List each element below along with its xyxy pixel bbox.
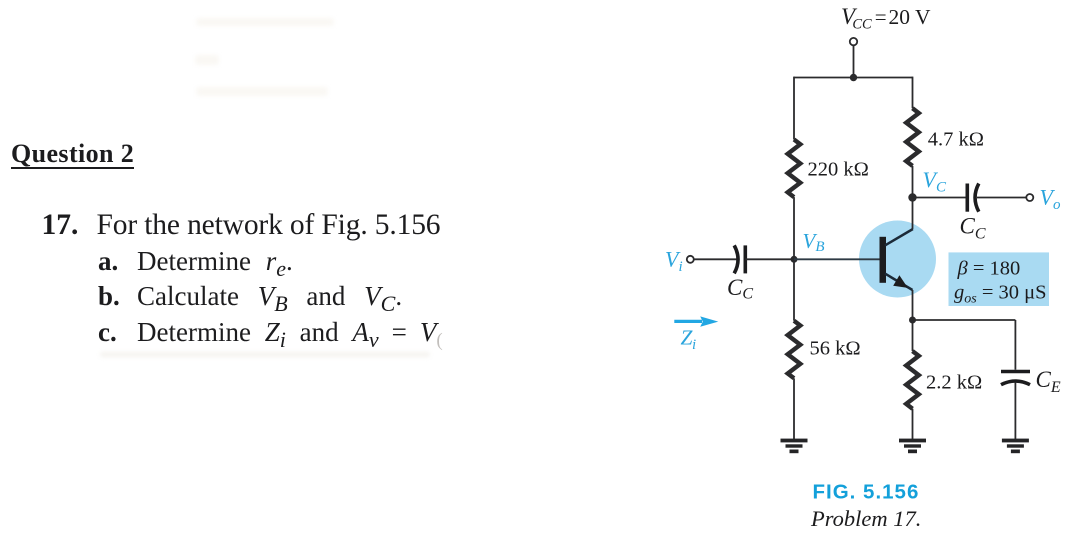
wire CE branch down to CE cap bbox=[1014, 320, 1016, 370]
wire left rail upper bbox=[793, 77, 795, 140]
svg-text:2.2 kΩ: 2.2 kΩ bbox=[926, 372, 982, 394]
label CC output bbox=[960, 214, 986, 243]
node VB junction dot bbox=[791, 256, 798, 263]
figure caption Problem 17. bbox=[810, 506, 921, 531]
wire CE cap to ground bbox=[1014, 383, 1016, 440]
ground symbol under R2 bbox=[781, 439, 808, 454]
wire R1 to base node bbox=[793, 197, 795, 259]
arrow Zi input impedance bbox=[674, 316, 718, 326]
svg-text:VB: VB bbox=[803, 229, 825, 255]
node Vo terminal bbox=[1026, 194, 1033, 201]
wire emitter node down to RE bbox=[912, 320, 914, 351]
wire base node down to R2 bbox=[793, 259, 795, 320]
value label 220 kOhm bbox=[808, 158, 869, 180]
label VC bbox=[923, 167, 947, 196]
resistor R1 220 kOhm bbox=[788, 140, 801, 198]
wire VC to output capacitor bbox=[913, 197, 966, 199]
label CC input bbox=[727, 275, 753, 303]
label VB bbox=[803, 229, 825, 255]
svg-text:220 kΩ: 220 kΩ bbox=[808, 158, 869, 180]
svg-text:Zi: Zi bbox=[681, 325, 697, 353]
svg-text:CE: CE bbox=[1036, 367, 1061, 396]
capacitor C3 emitter bypass CE bbox=[1001, 372, 1030, 385]
resistor R2 56 kOhm bbox=[788, 321, 801, 379]
wire top rail horizontal bbox=[794, 77, 913, 79]
svg-text:56 kΩ: 56 kΩ bbox=[810, 338, 861, 360]
wire R2 to ground bbox=[793, 378, 795, 439]
wire right rail upper bbox=[912, 77, 914, 109]
wire Vi to input capacitor bbox=[694, 258, 737, 260]
ground symbol under R4 bbox=[899, 439, 926, 454]
value label 4.7 kOhm bbox=[928, 129, 984, 151]
capacitor C1 input coupling CC bbox=[734, 245, 745, 273]
svg-text:FIG. 5.156: FIG. 5.156 bbox=[813, 481, 920, 504]
label Vo bbox=[1040, 185, 1061, 214]
label Zi bbox=[681, 325, 697, 353]
wire capacitor to base node bbox=[745, 258, 794, 260]
svg-text:CC: CC bbox=[960, 214, 986, 243]
transistor Q1 base bar bbox=[880, 237, 887, 283]
label Vi bbox=[665, 247, 683, 276]
svg-text:VCC=20 V: VCC=20 V bbox=[841, 4, 931, 33]
parameter box beta and gos bbox=[949, 252, 1050, 306]
wire emitter node to CE branch bbox=[913, 319, 1016, 321]
node Vi terminal bbox=[687, 256, 694, 263]
wire capacitor to Vo terminal bbox=[977, 197, 1026, 199]
svg-text:β = 180: β = 180 bbox=[957, 258, 1021, 280]
transistor Q1 body circle bbox=[859, 221, 936, 298]
resistor R3 4.7 kOhm bbox=[906, 108, 919, 166]
svg-text:Problem 17.: Problem 17. bbox=[810, 506, 921, 531]
label CE bbox=[1036, 367, 1061, 396]
transistor Q1 emitter lead with arrow bbox=[885, 274, 913, 290]
wire R4 to ground bbox=[912, 409, 914, 440]
node VC junction dot bbox=[908, 193, 916, 201]
value label 2.2 kOhm bbox=[926, 372, 982, 394]
wire base node to transistor base bbox=[794, 258, 880, 260]
svg-text:Vo: Vo bbox=[1040, 185, 1061, 214]
faint erased text remnants top-left bbox=[196, 18, 334, 26]
ground symbol under CE bbox=[1002, 439, 1029, 454]
wire VCC terminal to top rail bbox=[853, 45, 855, 77]
figure caption FIG. 5.156 bbox=[813, 481, 920, 504]
svg-text:CC: CC bbox=[727, 275, 753, 303]
heading Question 2 bbox=[11, 141, 134, 170]
value label 56 kOhm bbox=[810, 338, 861, 360]
wire R3 to collector node bbox=[912, 166, 914, 229]
transistor Q1 collector lead bbox=[885, 229, 913, 245]
svg-text:VC: VC bbox=[923, 167, 947, 196]
resistor R4 2.2 kOhm bbox=[906, 351, 919, 409]
node emitter junction dot bbox=[909, 317, 916, 324]
svg-text:Vi: Vi bbox=[665, 247, 683, 276]
wire emitter to emitter node bbox=[912, 290, 914, 320]
label VCC = 20 V bbox=[841, 4, 931, 33]
problem text bbox=[42, 211, 79, 241]
junction dot at top rail bbox=[850, 74, 857, 81]
svg-text:4.7 kΩ: 4.7 kΩ bbox=[928, 129, 984, 151]
node VCC terminal bbox=[850, 38, 857, 45]
capacitor C2 output coupling CC bbox=[967, 184, 979, 212]
